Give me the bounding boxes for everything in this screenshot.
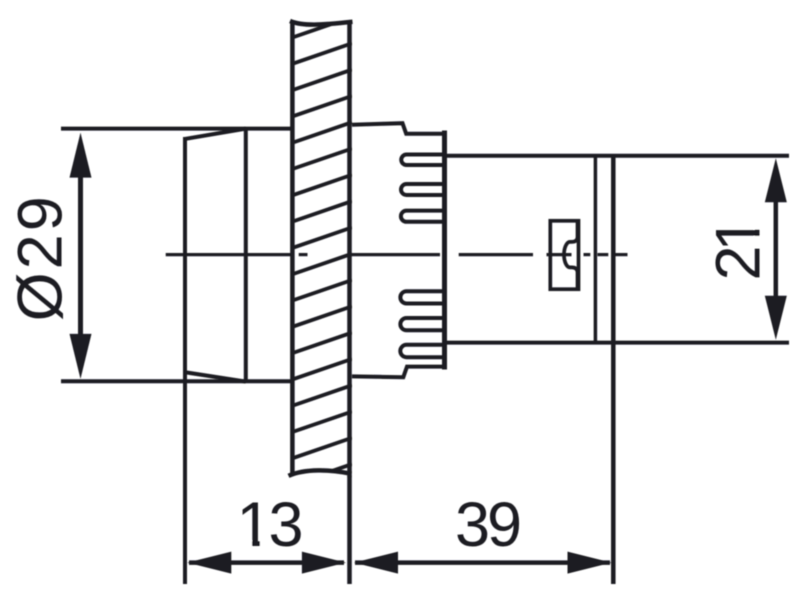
extension line top (O29) — [61, 127, 294, 131]
svg-text:13: 13 — [236, 490, 301, 560]
panel top break edge — [290, 21, 353, 25]
extension line below panel (13/39) — [347, 476, 352, 584]
arrow 21 down — [765, 296, 787, 340]
dim line 21 shaft — [774, 200, 779, 298]
button head bottom slant — [184, 372, 246, 382]
spring finger 2 — [401, 184, 442, 195]
body top edge + 21 extension — [443, 154, 790, 158]
spring finger 4 — [400, 291, 442, 303]
latch inner curve — [564, 221, 578, 289]
panel bottom break edge — [289, 470, 352, 475]
spring finger 6 — [400, 345, 442, 357]
extension line below body (39 right) — [611, 343, 616, 584]
svg-text:39: 39 — [455, 490, 520, 560]
svg-text:21: 21 — [704, 220, 774, 281]
extension line bottom (O29) — [61, 379, 294, 383]
arrow 13 right — [302, 552, 346, 574]
mask: remove foot serif of digit 1 in "21" — [754, 218, 761, 230]
button head top slant — [184, 129, 246, 140]
button head ridge — [244, 129, 248, 382]
panel hatching — [291, 17, 352, 485]
teeth base vertical — [442, 131, 447, 370]
latch detail rectangle — [550, 221, 578, 289]
body inner wall — [594, 156, 598, 343]
dim line 39 shaft — [355, 560, 610, 565]
extension line below head (13 left) — [183, 374, 187, 584]
svg-text:Ø29: Ø29 — [6, 193, 76, 321]
spring finger 5 — [400, 318, 442, 330]
dim line O29 shaft — [78, 172, 83, 337]
spring finger 3 — [401, 211, 443, 222]
button head front face — [183, 137, 187, 374]
body bottom edge + 21 extension — [443, 341, 790, 345]
arrow O29 down — [70, 334, 92, 379]
centerline — [166, 253, 628, 256]
dim line 13 shaft — [189, 560, 344, 565]
mask: remove foot serif of digit 1 in "13" — [241, 541, 253, 547]
spring finger 1 — [401, 155, 442, 166]
body right wall — [611, 156, 616, 343]
arrow 39 right — [568, 552, 612, 574]
arrow 13 left — [187, 552, 231, 574]
mount flange bottom outline — [352, 367, 443, 378]
arrow 21 up — [765, 158, 787, 202]
panel left edge — [290, 21, 295, 474]
panel right edge — [347, 21, 352, 477]
mount flange top outline — [352, 123, 443, 134]
arrow 39 left — [354, 552, 398, 574]
arrow O29 up — [70, 133, 92, 178]
